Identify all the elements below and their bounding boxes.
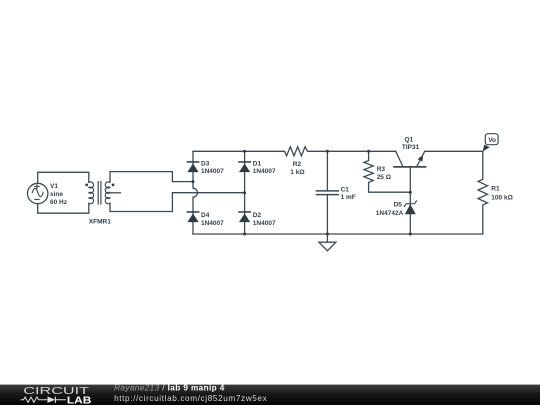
svg-text:C1: C1 — [341, 187, 350, 194]
svg-text:D5: D5 — [394, 201, 403, 208]
svg-text:25 Ω: 25 Ω — [377, 174, 391, 181]
svg-text:V1: V1 — [50, 183, 58, 190]
svg-text:LAB: LAB — [67, 395, 92, 405]
svg-text:Q1: Q1 — [405, 136, 414, 143]
svg-text:TIP31: TIP31 — [402, 144, 420, 151]
svg-text:R1: R1 — [491, 186, 500, 193]
svg-text:Rayane213 / lab 9 manip 4: Rayane213 / lab 9 manip 4 — [114, 383, 225, 392]
svg-text:D2: D2 — [253, 212, 262, 219]
svg-text:D3: D3 — [201, 160, 210, 167]
svg-text:XFMR1: XFMR1 — [89, 218, 111, 225]
svg-text:100 kΩ: 100 kΩ — [491, 195, 512, 202]
svg-text:http://circuitlab.com/cj852um7: http://circuitlab.com/cj852um7zw5ex — [114, 394, 267, 403]
svg-text:D4: D4 — [201, 212, 210, 219]
svg-text:1 mF: 1 mF — [341, 194, 356, 201]
svg-text:R2: R2 — [293, 161, 302, 168]
svg-text:1 kΩ: 1 kΩ — [290, 169, 304, 176]
svg-text:1N4742A: 1N4742A — [376, 210, 404, 217]
svg-text:1N4007: 1N4007 — [201, 168, 224, 175]
svg-text:R3: R3 — [377, 166, 386, 173]
svg-text:sine: sine — [50, 191, 63, 198]
svg-text:60 Hz: 60 Hz — [50, 199, 68, 206]
svg-text:Vo: Vo — [488, 137, 496, 144]
svg-text:1N4007: 1N4007 — [253, 168, 276, 175]
svg-text:1N4007: 1N4007 — [253, 220, 276, 227]
svg-text:D1: D1 — [253, 160, 262, 167]
svg-text:1N4007: 1N4007 — [201, 220, 224, 227]
